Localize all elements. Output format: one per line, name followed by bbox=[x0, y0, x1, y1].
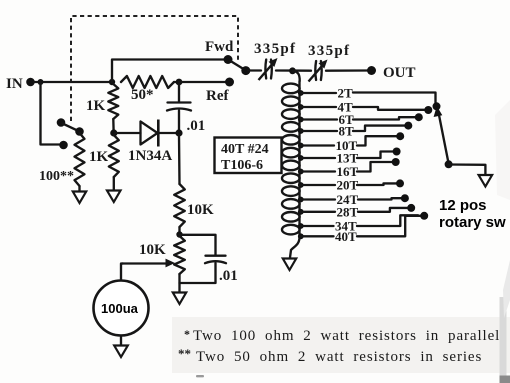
svg-text:8T: 8T bbox=[339, 124, 355, 139]
rotary switch SW1 wiper arm bbox=[439, 113, 449, 163]
wire: S1 common to C3 bbox=[248, 69, 261, 71]
wire: IN to junction A bbox=[34, 81, 112, 83]
ground under R2 bbox=[107, 191, 121, 203]
scan artifact: footnote background band bbox=[172, 317, 510, 373]
svg-text:*: * bbox=[184, 327, 190, 341]
svg-text:Two 50 ohm 2 watt resistors in: Two 50 ohm 2 watt resistors in series bbox=[196, 349, 482, 365]
junction A dot (IN / R1 / R3 / Fwd line) bbox=[109, 79, 115, 85]
node IN terminal dot bbox=[26, 78, 35, 87]
svg-text:10K: 10K bbox=[139, 242, 166, 258]
resistor R5 10K bbox=[174, 184, 185, 227]
scan artifact: bottom-right dark block bbox=[500, 376, 510, 383]
potentiometer R6 10K element bbox=[174, 236, 185, 274]
scan artifact: right edge gray strip bbox=[500, 297, 507, 383]
wire: L1 bottom curve to ground bbox=[290, 237, 300, 258]
svg-text:**: ** bbox=[178, 346, 191, 361]
L1 tap 34T: coil junction, label, wire to rotary contact bbox=[298, 223, 304, 229]
wire: junction A up and right to Fwd contact bbox=[112, 60, 224, 83]
L1 tap 10T: coil junction, label, wire to rotary contact bbox=[298, 143, 304, 149]
L1 tap 6T: coil junction, label, wire to rotary contact bbox=[298, 117, 304, 123]
wire: meter to pot wiper bbox=[121, 264, 123, 281]
wire: junction F curve down to L1 top bbox=[293, 71, 300, 81]
L1 tap 28T: coil junction, label, wire to rotary contact bbox=[298, 209, 304, 215]
wire: R5 to junction E bbox=[178, 227, 180, 233]
svg-text:1K: 1K bbox=[86, 98, 106, 114]
switch S2 common dot bbox=[75, 127, 84, 136]
svg-text:40T #24: 40T #24 bbox=[221, 142, 269, 157]
svg-text:12 pos: 12 pos bbox=[439, 197, 487, 214]
inductor L1 40T #24 on T106-6, winding bbox=[298, 81, 300, 237]
switch S2 upper contact bbox=[57, 118, 66, 127]
node OUT terminal dot bbox=[367, 66, 376, 75]
svg-text:Ref: Ref bbox=[206, 88, 229, 104]
svg-text:1N34A: 1N34A bbox=[128, 148, 172, 164]
diode D1 1N34A bbox=[141, 122, 158, 145]
resistor R1 1K bbox=[108, 84, 118, 119]
resistor R4 100** (two 50 ohm in series) bbox=[75, 133, 85, 186]
scan artifact: bottom center speck bbox=[196, 375, 204, 377]
L1 tap 2T: coil junction, label, wire to rotary contact bbox=[298, 90, 304, 96]
wire: C4 to OUT bbox=[326, 69, 368, 72]
wire: junction C to Ref contact bbox=[179, 81, 225, 83]
wire: D1 cathode to junction D bbox=[158, 132, 176, 134]
wire: meter bottom to ground bbox=[120, 336, 122, 346]
resistor R2 1K bbox=[109, 135, 119, 177]
junction dot on IN wire (drop to S2) bbox=[38, 79, 44, 85]
wire: pot bottom to ground bbox=[178, 283, 180, 292]
svg-text:20T: 20T bbox=[337, 178, 359, 193]
L1 tap 24T: coil junction, label, wire to rotary contact bbox=[298, 197, 304, 203]
wire: junction F to C4 bbox=[293, 69, 312, 71]
wire: drop from IN wire down to switch S2 contact bbox=[41, 82, 60, 145]
variable capacitor C3 335pf bbox=[264, 60, 267, 79]
switch S2 blade bbox=[63, 124, 79, 132]
svg-text:Fwd: Fwd bbox=[205, 39, 234, 55]
svg-text:.01: .01 bbox=[187, 118, 206, 134]
svg-text:335pf: 335pf bbox=[308, 43, 350, 59]
ground under L1 bbox=[283, 259, 296, 271]
junction E dot (R5 / pot top / C2 wire) bbox=[176, 231, 182, 237]
wire: SW1 pivot to ground bbox=[449, 165, 486, 175]
wire: C1 to junction D bbox=[178, 111, 180, 131]
wire: pot bottom rail bbox=[180, 263, 216, 283]
ground under meter M1 bbox=[114, 346, 128, 358]
wire: junction E right to C2 bbox=[180, 235, 216, 255]
L1 tap 8T: coil junction, label, wire to rotary contact bbox=[298, 128, 304, 134]
svg-text:IN: IN bbox=[6, 76, 23, 92]
svg-text:OUT: OUT bbox=[383, 65, 416, 81]
L1 tap 16T: coil junction, label, wire to rotary contact bbox=[298, 169, 304, 175]
junction D dot (D1 / C1 / R5) bbox=[175, 129, 182, 136]
ground after rotary SW1 bbox=[479, 175, 493, 187]
switch S1 common dot bbox=[241, 66, 250, 75]
svg-text:2T: 2T bbox=[338, 86, 354, 101]
svg-text:Two 100 ohm 2 watt resistors i: Two 100 ohm 2 watt resistors in parallel bbox=[193, 328, 500, 344]
junction F dot (C3 / C4 / L1 top) bbox=[289, 67, 296, 74]
wire: R2 to ground bbox=[113, 177, 115, 190]
wire: R3 to junction C bbox=[174, 81, 179, 83]
svg-text:rotary sw: rotary sw bbox=[439, 214, 506, 231]
variable capacitor C4 335pf bbox=[314, 61, 317, 80]
L1 tap 13T: coil junction, label, wire to rotary contact bbox=[298, 155, 304, 161]
wire: junction C down to C1 bbox=[178, 84, 180, 102]
L1 tap 40T: coil junction, label, wire to rotary contact bbox=[298, 233, 304, 239]
pot R6 wiper arrow bbox=[122, 262, 167, 264]
svg-text:100**: 100** bbox=[39, 169, 74, 184]
junction C dot (R3 / C1 / Ref) bbox=[176, 79, 183, 86]
switch S2 contact from IN bbox=[59, 141, 68, 150]
switch S1 blade (Fwd selected) bbox=[231, 61, 244, 69]
svg-text:.01: .01 bbox=[219, 268, 238, 284]
dashed mechanical gang link between switch S1 and S2 bbox=[71, 16, 238, 121]
rotary switch SW1 pivot dot bbox=[445, 160, 453, 168]
ground under pot R6 bbox=[173, 293, 186, 305]
svg-text:100ua: 100ua bbox=[101, 301, 139, 316]
wire: junction B to D1 anode bbox=[115, 132, 141, 134]
node Ref contact dot bbox=[225, 78, 234, 87]
meter M1 body bbox=[94, 281, 149, 336]
L1 value box 40T #24 / T106-6 bbox=[215, 138, 282, 174]
wire: C3 to junction F bbox=[276, 69, 293, 71]
resistor R3 50* (two 100 ohm in parallel) bbox=[121, 76, 174, 88]
junction B dot (R1 / R2 / D1) bbox=[110, 129, 117, 136]
svg-text:T106-6: T106-6 bbox=[221, 158, 263, 173]
svg-text:1K: 1K bbox=[89, 149, 109, 165]
ground under R4 bbox=[73, 192, 86, 204]
L1 tap 20T: coil junction, label, wire to rotary contact bbox=[298, 182, 304, 188]
svg-text:28T: 28T bbox=[337, 204, 359, 219]
L1 tap 4T: coil junction, label, wire to rotary contact bbox=[298, 104, 304, 110]
node Fwd contact dot bbox=[224, 55, 233, 64]
capacitor C2 .01 bbox=[206, 255, 226, 257]
svg-text:40T: 40T bbox=[335, 229, 357, 244]
svg-text:50*: 50* bbox=[131, 87, 154, 103]
wire: junction D down to R5 bbox=[178, 135, 181, 184]
wire: R4 to ground bbox=[78, 186, 80, 191]
capacitor C1 .01 bbox=[168, 101, 191, 103]
wire: R1 to junction B bbox=[112, 119, 115, 131]
svg-text:10K: 10K bbox=[187, 202, 214, 218]
svg-text:335pf: 335pf bbox=[254, 41, 296, 57]
